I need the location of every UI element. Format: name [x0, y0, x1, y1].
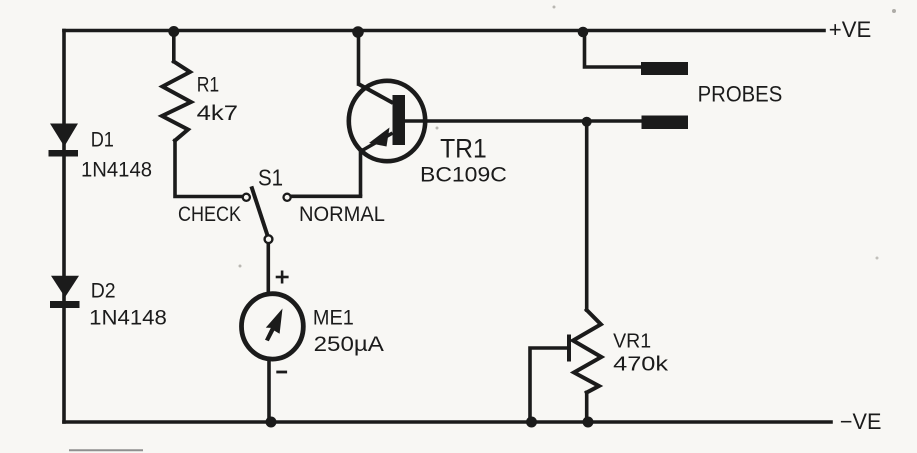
probe tip 2 — [642, 116, 689, 130]
svg-text:ME1: ME1 — [313, 306, 354, 329]
meter plus sign — [276, 271, 289, 284]
wire bottom -VE rail — [64, 420, 831, 424]
caption underline artifact — [69, 449, 143, 451]
wire VR1 bottom — [585, 393, 589, 423]
svg-text:CHECK: CHECK — [178, 203, 241, 226]
svg-text:NORMAL: NORMAL — [299, 203, 385, 226]
scan speck top right — [892, 9, 896, 13]
svg-text:R1: R1 — [197, 73, 220, 96]
potentiometer VR1 — [573, 310, 601, 393]
node dot probe1/top rail — [578, 27, 589, 38]
resistor R1 — [162, 62, 191, 141]
svg-text:250µA: 250µA — [314, 333, 384, 356]
svg-text:VR1: VR1 — [613, 331, 651, 353]
node dot wiper/bottom rail — [526, 417, 537, 428]
transistor TR1 — [349, 81, 425, 197]
meter ME1 — [242, 294, 304, 359]
VR1 wiper bar — [567, 337, 571, 360]
svg-text:D1: D1 — [91, 128, 114, 152]
svg-text:TR1: TR1 — [440, 133, 487, 163]
wire TR1 collector drop — [357, 31, 361, 85]
wire NORMAL contact to TR1 emitter — [291, 195, 360, 199]
svg-text:+VE: +VE — [829, 17, 872, 42]
node dot meter/bottom rail — [266, 417, 277, 428]
svg-text:4k7: 4k7 — [197, 102, 238, 125]
wire left rail — [62, 31, 66, 423]
switch S1 CHECK contact — [243, 194, 250, 201]
diode D1 — [49, 124, 79, 157]
wire VR1 top drop — [585, 121, 589, 310]
probe tip 1 — [641, 62, 688, 75]
wire probe1 branch — [585, 31, 643, 67]
wire R1 to CHECK contact — [175, 141, 242, 197]
svg-text:BC109C: BC109C — [420, 163, 507, 187]
scan speck top center — [553, 6, 556, 9]
wire TR1 base to probe junction — [405, 119, 641, 123]
switch S1 pole contact — [265, 235, 273, 243]
wire S1 pole to meter — [266, 244, 270, 293]
node dot R1/top rail — [168, 26, 179, 37]
svg-text:1N4148: 1N4148 — [81, 158, 152, 182]
svg-text:S1: S1 — [258, 165, 283, 191]
svg-text:PROBES: PROBES — [698, 81, 783, 106]
svg-text:D2: D2 — [91, 278, 116, 302]
switch S1 NORMAL contact — [284, 194, 291, 201]
switch S1 arm — [252, 188, 267, 235]
diode D2 — [50, 276, 80, 308]
wire R1 top drop — [172, 31, 176, 62]
svg-text:−VE: −VE — [840, 409, 882, 434]
scan speck right mid — [876, 257, 879, 260]
svg-text:470k: 470k — [613, 354, 669, 376]
wire top +VE rail — [64, 29, 824, 33]
scan speck switch left — [239, 265, 242, 268]
wire meter to rail — [267, 361, 271, 422]
node dot VR1/bottom rail — [583, 417, 594, 428]
scan speck center — [436, 127, 439, 130]
meter minus sign — [276, 371, 287, 374]
wire VR1 wiper to rail — [530, 348, 567, 422]
node dot TR1 collector/top rail — [352, 26, 364, 38]
svg-text:1N4148: 1N4148 — [89, 306, 167, 330]
node dot base/probe2/VR1 — [582, 117, 592, 127]
